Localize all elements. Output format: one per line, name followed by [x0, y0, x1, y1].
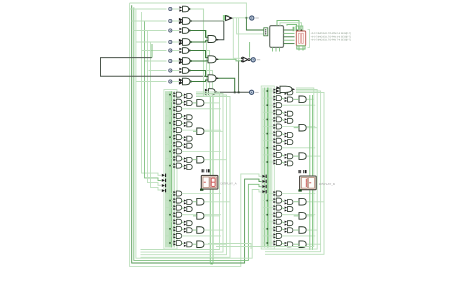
gate RCT1_4 [276, 110, 281, 115]
wire gate G2 input stub [172, 20, 179, 22]
output arrow G4 [190, 41, 193, 43]
gate LCT1_2 [176, 99, 181, 104]
gate LCT2_17 [187, 228, 192, 233]
wire U1 pins left connector [264, 28, 268, 36]
wire RC row2 stub [263, 97, 273, 99]
gate LCT1_11 [176, 163, 181, 168]
junction LC bus 15 [169, 214, 171, 216]
gate RCT1_19 [276, 240, 281, 245]
wire LC t3 in 1 [193, 102, 197, 104]
wire RC t3 out 5 [307, 215, 314, 217]
svg-text:DISPLAY_B: DISPLAY_B [319, 182, 335, 186]
wire N1 up stub [249, 42, 251, 58]
output arrow G6 [190, 60, 193, 62]
wire RC row11 stub [263, 161, 273, 163]
gate RCT3_2 [299, 124, 306, 131]
gate RCT2_11 [288, 161, 293, 166]
wire LC row9 stub [166, 150, 174, 152]
gate LCT3_7 [197, 241, 204, 248]
gate RCT2_13 [288, 199, 293, 204]
output arrow G7 [189, 69, 192, 71]
gate RCT2_1 [288, 90, 293, 95]
wire RC row9 stub [263, 147, 273, 149]
wire gate G3 input stub [172, 30, 179, 32]
input pin circle row 6 [169, 59, 172, 62]
wire LC row16 stub [166, 221, 174, 223]
junction LC bus 7 [169, 136, 171, 138]
wire LC t2 link 11 [182, 166, 184, 167]
gate RCT2_14 [288, 207, 293, 212]
wire RC t2 out 18 [282, 235, 316, 237]
wire RC t3 out 1 [307, 98, 314, 100]
wire LC t2 link 7 [182, 137, 184, 138]
gate RCT1_16 [276, 219, 281, 224]
wire module pins cluster [293, 27, 295, 31]
junction RC bus 13 [267, 200, 269, 202]
gate LCT2_8 [187, 143, 192, 148]
wire LC side frame 1 [141, 92, 220, 250]
gate RCT3_5 [299, 213, 306, 220]
wire LC row8 stub [166, 143, 174, 145]
and gate G7 [183, 68, 189, 74]
and gate G5 [183, 48, 189, 54]
and gate G8 [183, 78, 191, 85]
display DISP1 pin numbers [202, 169, 203, 172]
gate LCT3_2 [197, 128, 204, 135]
wire bottom link A [216, 246, 265, 248]
input pin LCP3 [162, 184, 165, 187]
junction A4-T3 [234, 91, 236, 93]
wire RC row12 stub [263, 193, 273, 195]
output arrow RCW1 [292, 88, 295, 90]
wire RC row16 stub [263, 221, 273, 223]
and gate A2 [208, 36, 216, 43]
gate LCT1_13 [176, 198, 181, 203]
wire LC row1 stub [166, 94, 174, 96]
gate RCT3_3 [299, 153, 306, 160]
junction U1 feed B [246, 17, 248, 19]
junction RC bus 11 [267, 161, 269, 163]
input pin circle row 4 [169, 40, 172, 43]
gate LCT1_3 [176, 106, 181, 111]
gate RCT2_8 [288, 140, 293, 145]
wire LC t3 out 3 [204, 159, 226, 161]
gate LCT2_16 [187, 221, 192, 226]
wire U1 feed B [246, 18, 263, 30]
input pin RCP1 [262, 175, 265, 178]
junction LC bus 19 [169, 242, 171, 244]
wire LC t3 in 5 [193, 215, 197, 217]
wire feedback loop 2 [132, 5, 262, 263]
gate RCT1_17 [276, 226, 281, 231]
wire G5 to A3 [190, 51, 208, 58]
gate RCT2_10 [288, 154, 293, 159]
wire array out row light 1 [190, 9, 204, 96]
output arrow A3 [216, 58, 219, 60]
wire RC row5 stub [263, 118, 273, 120]
gate RCW1 [280, 86, 292, 92]
gate LCT2_5 [187, 122, 192, 127]
wire LC t2 out 6 [182, 129, 221, 131]
input pin LCP2 [162, 179, 165, 182]
gate RCT3_6 [299, 227, 306, 234]
wire RC row1 stub [263, 90, 273, 92]
gate LCT3_6 [197, 227, 204, 234]
wire LC t3 in 7 [193, 243, 197, 245]
wire feedback loop 4 [136, 10, 262, 259]
wire LC t2 link 2 [182, 102, 184, 103]
wire LC row10 stub [166, 158, 174, 160]
gate LCT2_4 [187, 115, 192, 120]
and gate G6 [183, 58, 191, 65]
wire U1 out 1 [284, 29, 295, 31]
wire RC t2 link 5 [282, 119, 285, 120]
wire RC t2 link 1 [282, 91, 285, 92]
gate LCT3_1 [197, 100, 204, 107]
wire LC t3 out 6 [204, 229, 223, 231]
wire RC t3 in 2 [294, 127, 299, 129]
wire module top loop A [277, 21, 299, 31]
wire G4 to A2 [190, 41, 208, 42]
and gate A3 [208, 56, 216, 63]
wire T3 feed down light [238, 18, 240, 61]
junction RC bus 9 [267, 147, 269, 149]
wire A2 out [216, 21, 224, 40]
wire WG1 to T3 [215, 91, 250, 93]
junction RC bus 7 [267, 133, 269, 135]
wire U1 feed A [237, 18, 264, 34]
wire gate G6 input stub [172, 60, 179, 62]
output arrow A4 [216, 77, 219, 79]
gate LCT1_8 [176, 142, 181, 147]
wire gate G8 input stub [172, 81, 179, 83]
wire array out row light 4 [190, 71, 213, 97]
input pin circle row 3 [169, 29, 172, 32]
and gate G1 [183, 6, 189, 12]
wire G6 to A3 [190, 60, 208, 62]
junction RC bus 3 [267, 104, 269, 106]
wire RC row10 stub [263, 154, 273, 156]
output arrow A2 [216, 39, 219, 41]
wire feedback loop 3 [134, 7, 262, 260]
gate LCT2_14 [187, 207, 192, 212]
wire U1 out 5 [284, 43, 295, 45]
wire RC t2 link 2 [282, 98, 285, 99]
wire RC row15 stub [263, 214, 273, 216]
resistor network module RN1 [296, 31, 305, 46]
gate RCT1_10 [276, 152, 281, 157]
wire LC row3 stub [166, 108, 174, 110]
terminal T3 [250, 90, 254, 94]
wire array input row 5 [142, 50, 167, 52]
wire left column input net 3 [148, 31, 162, 186]
wire LC row13 stub [166, 200, 174, 202]
gate RCT2_4 [288, 111, 293, 116]
gate RCT2_19 [288, 242, 293, 247]
wire left column input net 2 [145, 21, 162, 181]
wire LC row11 stub [166, 165, 174, 167]
gate LCT2_11 [187, 165, 192, 170]
and gate G3 [183, 28, 189, 34]
output arrow LCW1 [215, 91, 218, 93]
wire RC side frame 2 [265, 90, 317, 250]
gate RCT1_1 [276, 89, 281, 94]
wire array input row 4 [136, 41, 167, 43]
gate RCT1_6 [276, 124, 281, 129]
input pin RCP2 [262, 180, 265, 183]
junction RC bus 19 [267, 242, 269, 244]
nand gate N1 [243, 57, 248, 62]
gate RCT1_11 [276, 160, 281, 165]
gate RCT1_15 [276, 212, 281, 217]
gate RCT1_18 [276, 233, 281, 238]
wire RC row13 stub [263, 200, 273, 202]
wire gate G4 input stub [172, 41, 179, 43]
wire RC t2 link 19 [282, 243, 285, 244]
wire RC side frame 1 [265, 88, 314, 247]
wire RC row14 stub [263, 207, 273, 209]
wire band left column A [209, 96, 211, 264]
wire module top loop B [280, 23, 302, 30]
wire RC side frame 3 [265, 91, 321, 252]
wire LC t2 link 14 [182, 208, 184, 209]
wire RC t2 link 8 [282, 141, 285, 142]
wire array out row light 3 [190, 51, 210, 97]
wire LC t3 in 2 [193, 130, 197, 132]
gate LCT1_10 [176, 156, 181, 161]
terminal T1 [250, 16, 254, 20]
wire LC t3 in 4 [193, 201, 197, 203]
wire U1 bottom pin stubs [272, 47, 274, 51]
wire RC t3 out 2 [307, 127, 318, 129]
and gate G4 [183, 39, 191, 46]
wire LC row15 stub [166, 214, 174, 216]
wire RC t3 in 1 [294, 98, 299, 100]
gate RCT1_2 [276, 96, 281, 101]
terminal T2 [251, 58, 255, 62]
wire LC t3 out 4 [204, 201, 229, 203]
junction LC bus 9 [169, 151, 171, 153]
wire RC row7 stub [263, 133, 273, 135]
gate LCT1_5 [176, 121, 181, 126]
wire LC t2 link 17 [182, 229, 184, 230]
wire array input row 8 [136, 81, 167, 83]
wire LC side frame 3 [141, 95, 227, 255]
wire RC bus frame [261, 86, 274, 249]
wire LC t2 link 1 [182, 95, 184, 96]
wire U1 out 2 [284, 32, 295, 34]
wire N1 to T2 [250, 59, 251, 61]
wire G2 to B1 [190, 20, 224, 22]
wire array out row light 2 [190, 31, 207, 97]
wire A3 out [216, 59, 242, 61]
display DISP1 [201, 175, 218, 189]
wire left column input net 4 [151, 42, 162, 190]
wire RC bus [262, 88, 264, 248]
gate RCT1_9 [276, 145, 281, 150]
gate RCT1_14 [276, 205, 281, 210]
wire top rail [130, 3, 247, 18]
wire LC row7 stub [166, 136, 174, 138]
wire RC t2 out 12 [282, 193, 316, 195]
junction LC bus 3 [169, 108, 171, 110]
gate LCT3_3 [197, 156, 204, 163]
wire gate G5 input stub [172, 50, 179, 52]
wire LC t2 link 13 [182, 201, 184, 202]
gate RCT1_13 [276, 198, 281, 203]
output arrow G5 [189, 49, 192, 51]
junction RC bus 17 [267, 228, 269, 230]
wire LC t3 out 7 [204, 243, 226, 245]
wire RC t2 link 17 [282, 229, 285, 230]
buffer gate B1 [226, 16, 232, 21]
wire LC t2 out 15 [182, 214, 221, 216]
wire RC t2 out 3 [282, 104, 316, 106]
wire RC t2 link 4 [282, 112, 285, 113]
wire RC t2 link 10 [282, 155, 285, 156]
gate RCT2_5 [288, 118, 293, 123]
wire LC t2 out 12 [182, 193, 221, 195]
gate LCT2_13 [187, 199, 192, 204]
wire B1 to T1 [233, 17, 250, 19]
junction LC bus 13 [169, 200, 171, 202]
wire LC t2 link 10 [182, 159, 184, 160]
wire LC row18 stub [166, 235, 174, 237]
wire LC t2 link 4 [182, 116, 184, 117]
wire LC side frame 4 [141, 97, 231, 258]
wire RC t2 link 13 [282, 201, 285, 202]
gate LCT1_1 [176, 92, 181, 97]
wire LC t3 out 2 [204, 130, 223, 132]
wire RC t3 in 7 [294, 243, 299, 245]
output arrow G8 [190, 80, 193, 82]
gate RCT3_4 [299, 198, 306, 205]
junction LC bus 5 [169, 122, 171, 124]
and gate G2 [183, 18, 191, 25]
wire G3 to A2 [190, 31, 208, 38]
input pin circle row 1 [169, 7, 172, 10]
wire T3 feed down med [238, 61, 240, 92]
gate RCT2_16 [288, 221, 293, 226]
junction LC bus 1 [169, 94, 171, 96]
gate LCT3_4 [197, 198, 204, 205]
gate LCT2_2 [187, 101, 192, 106]
gate LCT2_10 [187, 157, 192, 162]
input pin LCP4 [162, 189, 165, 192]
gate RCT2_17 [288, 228, 293, 233]
gate LCT2_1 [187, 94, 192, 99]
wire RC t3 in 5 [294, 215, 299, 217]
gate LCT1_16 [176, 219, 181, 224]
wire RC t3 out 7 [307, 243, 321, 245]
wire LC t2 link 5 [182, 123, 184, 124]
wire RC t3 in 4 [294, 201, 299, 203]
gate LCT1_17 [176, 226, 181, 231]
wire LC row19 stub [166, 242, 174, 244]
wire LC row12 stub [166, 193, 174, 195]
gate RCT1_3 [276, 103, 281, 108]
wire RC side frame 4 [265, 93, 324, 255]
junction T3 branch [238, 91, 240, 93]
wire RC t3 out 4 [307, 201, 325, 203]
wire LC t2 link 16 [182, 222, 184, 223]
gate LCT1_15 [176, 212, 181, 217]
gate LCT1_6 [176, 128, 181, 133]
junction RC bus 15 [267, 214, 269, 216]
wire RC t2 link 14 [282, 208, 285, 209]
wire RC row6 stub [263, 126, 273, 128]
wire RC row3 stub [263, 104, 273, 106]
wire LC bus frame [164, 90, 177, 249]
wire LC t2 out 18 [182, 235, 221, 237]
gate RCT1_7 [276, 131, 281, 136]
output arrow G2 [190, 20, 193, 22]
svg-text:+0-0 74HC4511.TO-PIN 7-9 SEG[0: +0-0 74HC4511.TO-PIN 7-9 SEG[0-7] [311, 39, 351, 42]
display DISP1 bottom pin [200, 189, 203, 191]
input pin circle row 7 [169, 69, 172, 72]
wire RC t2 link 16 [282, 222, 285, 223]
gate LCT2_7 [187, 136, 192, 141]
gate RCT2_2 [288, 97, 293, 102]
gate LCT1_7 [176, 135, 181, 140]
gate RCT1_12 [276, 191, 281, 196]
wire array input row 1 [130, 8, 167, 10]
wire RC row19 stub [263, 242, 273, 244]
junction LC bus 11 [169, 165, 171, 167]
wire RC row4 stub [263, 111, 273, 113]
wire LC bus [165, 91, 167, 247]
gate LCT1_4 [176, 113, 181, 118]
wire RC t2 out 9 [282, 147, 316, 149]
wire dark feed net [101, 58, 207, 77]
wire LC row2 stub [166, 101, 174, 103]
output arrow G3 [189, 29, 192, 31]
wire RC t2 out 6 [282, 126, 316, 128]
gate LCT1_9 [176, 149, 181, 154]
wire left column input net 1 [142, 12, 162, 175]
ic U1 [270, 26, 284, 48]
wire dark feed stub [151, 44, 153, 58]
and gate A4 [208, 75, 216, 82]
gate LCT2_19 [187, 242, 192, 247]
wire LC t3 out 5 [204, 215, 219, 217]
wire LC side frame 2 [141, 94, 224, 253]
wire LC t3 in 3 [193, 159, 197, 161]
wire feedback loop 1 [130, 3, 262, 266]
wire N1 feed down [232, 18, 234, 59]
wire gate G7 input stub [172, 70, 179, 72]
display DISP2 pin numbers [299, 170, 300, 173]
gate RCT2_7 [288, 133, 293, 138]
wire RC t3 in 3 [294, 155, 299, 157]
svg-text:DISPLAY_A: DISPLAY_A [221, 181, 237, 185]
wire LC t3 out 1 [204, 102, 219, 104]
wire U1 out 3 [284, 36, 295, 38]
wire band right column A [309, 95, 311, 250]
wire U1 out 4 [284, 39, 295, 41]
wire band right column B [312, 95, 314, 250]
wire array input row 6 [145, 60, 167, 62]
input pin RCP3 [262, 185, 265, 188]
wire N1 in stub [233, 57, 241, 59]
wire LC row14 stub [166, 207, 174, 209]
wire array input row 2 [132, 20, 167, 22]
input pin LCP1 [162, 174, 165, 177]
wire RC row17 stub [263, 228, 273, 230]
wire array input row 7 [149, 70, 167, 72]
wire RC t3 out 3 [307, 155, 321, 157]
wire gate G1 input stub [172, 8, 179, 10]
